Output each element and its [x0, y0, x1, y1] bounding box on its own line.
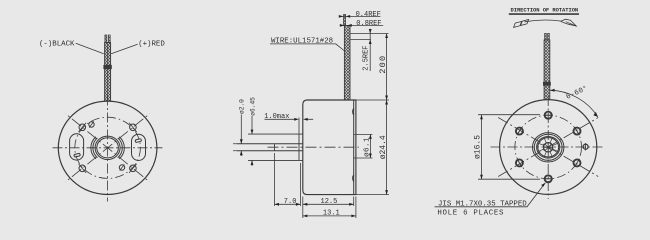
o6.1 extension bottom	[354, 157, 373, 159]
bolt circle dash-dot	[515, 115, 582, 179]
boss bottom extension line	[248, 159, 303, 161]
tapped hole bottom	[545, 175, 552, 182]
bottom ext shaft end	[274, 153, 276, 206]
body top extension to dim	[356, 99, 389, 101]
spoke 30deg TR-BL	[498, 118, 598, 177]
center boss ring inner	[97, 138, 119, 158]
dimension line o24.4	[386, 100, 388, 195]
svg-text:13.1: 13.1	[323, 210, 340, 218]
rotation arrow right head	[561, 19, 577, 26]
middle wire bare lead	[343, 15, 345, 26]
center rings	[533, 133, 564, 162]
right brush stadium	[132, 134, 146, 160]
leader (+)RED	[111, 44, 137, 54]
dimension 2.5REF vertical line w/ arrows	[369, 29, 371, 71]
vent hole lower-right with slash	[119, 165, 124, 170]
svg-text:(+)RED: (+)RED	[138, 40, 165, 48]
svg-text:ø24.4: ø24.4	[379, 135, 388, 159]
motor body outline	[303, 100, 356, 195]
left brush stadium	[70, 134, 84, 160]
right wire bare lead right	[548, 33, 550, 40]
middle horizontal centerline	[268, 146, 359, 148]
right wire crimp band	[543, 82, 550, 85]
screw hole BR with X tick	[130, 165, 137, 172]
o16.5 dimension line	[481, 115, 483, 180]
bottom ext body right	[355, 197, 357, 219]
crimp tab upper	[353, 109, 354, 116]
svg-text:0.8REF: 0.8REF	[356, 20, 381, 28]
o6.1 dimension line	[369, 134, 371, 158]
middle wire insulated	[344, 26, 350, 101]
vertical centerline	[107, 96, 109, 202]
tapped hole 8oclock	[516, 159, 523, 166]
right stadium slot	[135, 139, 142, 143]
left view wire insulated pair	[105, 43, 111, 102]
o16.5 extension top	[478, 114, 540, 116]
svg-text:WIRE:UL1571#28: WIRE:UL1571#28	[271, 38, 333, 46]
6-60 angle arc	[550, 90, 598, 117]
rotation arrow left chevron 1	[514, 21, 522, 27]
o6.1 extension top	[354, 133, 373, 135]
1.0max extension lines	[298, 118, 300, 134]
center boss ring outer	[95, 136, 120, 159]
left view bare lead left	[105, 35, 107, 43]
spoke 150deg TL-BR	[498, 118, 598, 177]
body bottom extension to dim	[356, 194, 389, 196]
right wire bare lead left	[545, 33, 547, 40]
extension line B (2.5REF bottom)	[350, 39, 371, 41]
svg-text:ø2.0: ø2.0	[239, 99, 246, 114]
tapped hole 2oclock	[574, 128, 581, 135]
right view wire insulated	[544, 40, 550, 100]
bottom ext boss face	[299, 163, 301, 206]
shaft top line	[237, 143, 303, 145]
svg-text:200: 200	[378, 55, 388, 74]
motor outer circle	[500, 100, 597, 195]
svg-text:(-)BLACK: (-)BLACK	[39, 40, 75, 48]
tapped hole 10oclock	[516, 128, 523, 135]
boss clamp arc east	[118, 137, 125, 159]
boss top extension line	[248, 133, 303, 135]
vertical centerline	[547, 96, 549, 199]
tapped hole 4oclock	[574, 159, 581, 166]
leader (-)BLACK	[76, 43, 104, 54]
boss clamp arc west	[91, 137, 98, 159]
diagonal centerline BL-TR	[66, 114, 150, 182]
left view bare lead right	[108, 35, 110, 43]
bearing spokes	[538, 138, 558, 157]
horizontal centerline	[53, 147, 163, 149]
horizontal centerline	[491, 146, 604, 148]
svg-text:0.4REF: 0.4REF	[356, 11, 381, 19]
extension line A (2.5REF top)	[350, 33, 389, 35]
vent hole upper-left with slash	[89, 122, 94, 127]
motor outer body circle	[58, 101, 157, 194]
svg-text:DIRECTION OF ROTATION: DIRECTION OF ROTATION	[511, 6, 579, 13]
svg-text:7.0: 7.0	[284, 198, 297, 206]
svg-text:2.5REF: 2.5REF	[362, 45, 370, 70]
bolt circle (dash-dot)	[75, 117, 141, 178]
svg-text:HOLE 6 PLACES: HOLE 6 PLACES	[437, 210, 504, 218]
rotation double-arc arrow	[525, 20, 562, 22]
screw hole BL with X tick	[79, 165, 86, 172]
svg-text:12.5: 12.5	[321, 198, 338, 206]
svg-text:ø16.5: ø16.5	[473, 135, 482, 159]
index rivet circle at 3 oclock	[583, 144, 588, 149]
shaft end	[274, 144, 276, 151]
tapped hole top	[545, 112, 552, 119]
dimension 200 vertical line	[386, 34, 388, 101]
endbell seam line	[353, 100, 355, 195]
crimp tab lower	[353, 175, 354, 182]
shaft knurled center	[544, 143, 553, 152]
shaft bottom line	[237, 150, 303, 152]
screw hole TL with X tick	[79, 124, 86, 131]
diagonal centerline TL-BR	[66, 114, 150, 182]
boss front face	[298, 134, 300, 160]
left stadium slot	[74, 153, 81, 157]
svg-text:ø6.1: ø6.1	[363, 137, 371, 157]
left view wire crimp band	[104, 65, 112, 69]
o16.5 extension bottom	[478, 178, 540, 180]
svg-text:ø6.45: ø6.45	[249, 97, 256, 116]
rotation arrow left chevron 2	[521, 20, 529, 26]
bottom ext body left	[302, 197, 304, 219]
bottom ext seam	[353, 197, 355, 207]
screw hole TR with X tick	[130, 124, 137, 131]
